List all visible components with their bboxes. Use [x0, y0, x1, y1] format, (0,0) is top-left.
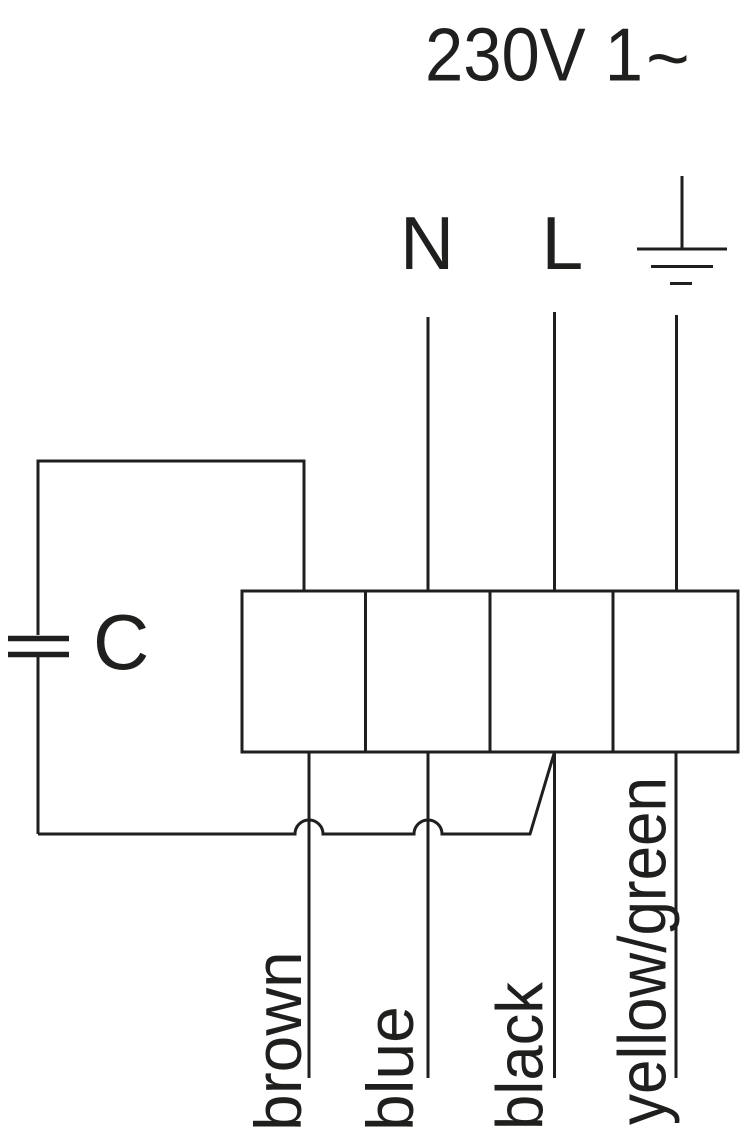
wire L to terminal 3: [553, 312, 556, 591]
terminal block: [242, 591, 738, 752]
svg-text:blue: blue: [353, 1006, 427, 1131]
capacitor C loop wires: [38, 461, 304, 834]
bottom wire from capacitor with hops to terminal 3: [38, 752, 555, 834]
wire black from terminal 3: [553, 752, 556, 1078]
wire yellow/green from terminal 4: [675, 752, 678, 1078]
svg-text:C: C: [93, 598, 149, 686]
terminal divider 2: [489, 591, 492, 752]
wire blue from terminal 2: [427, 752, 430, 1078]
svg-text:N: N: [400, 201, 454, 285]
svg-text:yellow/green: yellow/green: [605, 777, 681, 1125]
wire N to terminal 2: [427, 317, 430, 591]
terminal divider 3: [612, 591, 615, 752]
wire brown from terminal 1: [308, 752, 311, 1078]
svg-text:L: L: [542, 201, 584, 285]
wire earth to terminal 4: [675, 315, 678, 591]
capacitor C plates: [8, 639, 69, 655]
svg-text:230V 1: 230V 1: [425, 13, 643, 97]
svg-text:black: black: [483, 981, 557, 1130]
terminal divider 1: [364, 591, 367, 752]
earth ground symbol: [637, 176, 727, 284]
svg-text:brown: brown: [241, 951, 315, 1131]
svg-text:~: ~: [646, 16, 690, 100]
